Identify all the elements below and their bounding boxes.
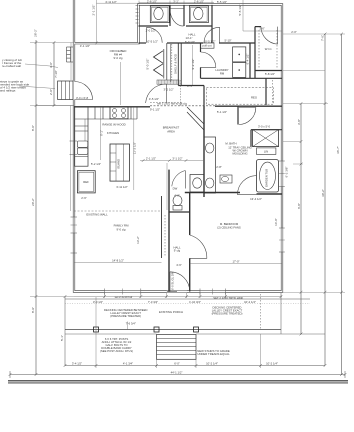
svg-text:10'-2 1/4": 10'-2 1/4" xyxy=(244,300,256,304)
office closet front x=163.8 xyxy=(163,49,165,79)
svg-text:17'-0": 17'-0" xyxy=(232,260,239,264)
header dashed over kitchen/breakfast opening xyxy=(150,105,215,107)
svg-text:5'-1 1/2": 5'-1 1/2" xyxy=(217,110,227,114)
svg-text:8'-0": 8'-0" xyxy=(31,125,35,131)
office dim x=192.3 xyxy=(191,45,193,85)
svg-text:3'-11 1/2": 3'-11 1/2" xyxy=(116,185,128,189)
bottom wall dim extensions xyxy=(104,293,106,298)
svg-text:9'-0 clg: 9'-0 clg xyxy=(114,56,123,60)
closet rod dashed x=272.5 xyxy=(272,80,274,103)
deck stairs xyxy=(157,335,197,360)
svg-text:3'-0": 3'-0" xyxy=(49,62,53,68)
left dimension line x=71 xyxy=(70,43,72,81)
office dim x=96.5 xyxy=(96,0,98,43)
deck post 3 xyxy=(194,327,199,332)
svg-text:RANGE W/ HOOD: RANGE W/ HOOD xyxy=(102,123,125,127)
linen closet dashes xyxy=(164,215,166,256)
svg-text:44'-1 1/2": 44'-1 1/2" xyxy=(171,371,183,375)
shower xyxy=(253,130,279,147)
svg-text:re-crafted wall: re-crafted wall xyxy=(2,64,21,68)
right dimension line x=341.5 xyxy=(341,34,343,375)
kitchen vertical dim xyxy=(100,107,102,160)
laundry counter xyxy=(201,43,215,48)
deck right edge x=281 xyxy=(280,293,282,334)
wall ledge y=8.3 between baths xyxy=(170,7,184,9)
kitchen island xyxy=(110,144,129,181)
dashed header y=102.6 xyxy=(150,102,183,104)
svg-text:10'-2 1/4": 10'-2 1/4" xyxy=(206,361,218,365)
closet wall x=266 xyxy=(265,78,267,105)
svg-text:3'-1 1/2": 3'-1 1/2" xyxy=(172,157,182,161)
kitchen sink xyxy=(77,141,87,147)
mbath wall upper x=204 xyxy=(203,86,205,107)
dimension slash ticks xyxy=(9,33,347,376)
svg-text:2'-4": 2'-4" xyxy=(187,84,193,88)
top bath sink right box xyxy=(189,6,208,23)
office bifold doors xyxy=(154,51,164,77)
mbath toilet xyxy=(220,175,232,183)
svg-text:9'-0 clg: 9'-0 clg xyxy=(117,228,126,232)
entry stairs left xyxy=(58,81,73,100)
window bottom wall mbr xyxy=(200,289,226,295)
toilet room wall x=184 xyxy=(183,5,185,26)
pantry door arc xyxy=(172,171,186,187)
top dim line y=3.2 left xyxy=(97,2,139,4)
window right wall tub xyxy=(279,161,285,187)
window left wall family xyxy=(71,217,78,233)
svg-text:6'-0": 6'-0" xyxy=(174,361,180,365)
svg-text:5'-8 1/2": 5'-8 1/2" xyxy=(265,72,275,76)
svg-text:5'-10": 5'-10" xyxy=(224,39,231,43)
shower left wall x=251 xyxy=(250,130,252,147)
svg-text:7'-6 3/4": 7'-6 3/4" xyxy=(126,321,136,325)
deck dim line y=365.5 xyxy=(65,365,325,367)
svg-text:4'-1 1/2": 4'-1 1/2" xyxy=(80,44,90,48)
door arc laundry xyxy=(201,52,216,67)
breakfast/mbath wall x=204 xyxy=(203,106,205,197)
top bath sink left box xyxy=(150,6,169,23)
family room interior dim line xyxy=(74,262,162,264)
mbath vanity xyxy=(204,137,216,193)
entry door arc xyxy=(75,82,93,100)
left dimension line x=54 xyxy=(53,43,55,106)
svg-text:2'-0": 2'-0" xyxy=(291,30,297,34)
dashed line x=180.6 hall xyxy=(180,80,182,106)
svg-text:(PRESSURE TREATED): (PRESSURE TREATED) xyxy=(212,312,243,316)
office vertical dim x=120.6 xyxy=(120,62,122,105)
washer dryer xyxy=(233,47,246,62)
svg-text:5'-5 1/2": 5'-5 1/2" xyxy=(217,0,227,4)
svg-text:4'-0": 4'-0" xyxy=(174,194,180,198)
kitchen sink window ticks xyxy=(70,141,78,155)
wic left wall x=255 xyxy=(254,27,256,79)
svg-text:3'-8": 3'-8" xyxy=(297,119,301,125)
svg-text:10'-5 1/2": 10'-5 1/2" xyxy=(204,40,216,44)
mbr top wall y=193 xyxy=(185,192,240,194)
note leader 2 xyxy=(19,86,55,89)
svg-text:10'-2 1/4": 10'-2 1/4" xyxy=(266,361,278,365)
post extension lines xyxy=(95,297,97,368)
svg-text:2'-8": 2'-8" xyxy=(216,165,222,169)
svg-text:14'-0": 14'-0" xyxy=(274,218,278,226)
deck post 1 xyxy=(94,327,99,332)
deck dashed column xyxy=(260,294,262,330)
svg-text:AREA: AREA xyxy=(167,130,175,134)
mbath hall wall x=238 xyxy=(237,106,239,125)
door arc wic xyxy=(261,27,278,44)
kitchen counter divisions xyxy=(75,118,89,120)
office closet shelf lines xyxy=(169,44,171,82)
door arc mbr entry xyxy=(190,235,207,258)
toilet room wall x=212 xyxy=(211,5,213,43)
attic access dashed rect xyxy=(206,88,273,105)
deck ledger line xyxy=(65,298,310,300)
range xyxy=(110,107,128,119)
breakfast corner cabinet xyxy=(187,112,204,130)
svg-text:(PRESSURE TREATED): (PRESSURE TREATED) xyxy=(110,314,141,318)
svg-text:and railings: and railings xyxy=(0,89,16,93)
breakfast dim y=160.5 xyxy=(140,160,204,162)
svg-text:6'-8": 6'-8" xyxy=(297,203,301,209)
svg-text:2'-1 1/2": 2'-1 1/2" xyxy=(92,5,96,16)
ladder ticks left of bath wall xyxy=(136,6,139,24)
interior wall y=107 kitchen top xyxy=(74,106,150,108)
svg-text:5'-5 1/2": 5'-5 1/2" xyxy=(238,5,242,16)
linen closet wall x=161.5 xyxy=(161,196,163,258)
svg-text:4'-5 1/2": 4'-5 1/2" xyxy=(149,97,159,101)
mbr interior dim line xyxy=(190,263,282,265)
garden tub xyxy=(257,160,279,192)
svg-text:SET 2 2x10 TRTD HDR: SET 2 2x10 TRTD HDR xyxy=(213,296,243,300)
deck left edge xyxy=(64,297,66,367)
svg-text:5'-2 1/4": 5'-2 1/4" xyxy=(91,162,101,166)
svg-text:2'-8 1/2": 2'-8 1/2" xyxy=(147,0,157,4)
svg-text:EXISTING PORCH: EXISTING PORCH xyxy=(159,310,183,314)
door arc hall left xyxy=(147,27,163,43)
powder toilet xyxy=(173,196,182,206)
kitchen top counter xyxy=(88,107,137,119)
svg-text:2'-1 1/2": 2'-1 1/2" xyxy=(146,157,156,161)
svg-text:4'-6": 4'-6" xyxy=(176,263,182,267)
svg-text:EXISTING WALL: EXISTING WALL xyxy=(86,213,108,217)
svg-text:6'-2 3/8": 6'-2 3/8" xyxy=(285,167,289,178)
right dim tick y=71 xyxy=(283,70,325,72)
right dim tick y=103.6 xyxy=(283,103,328,105)
ground double line xyxy=(8,380,348,382)
sliding glass door bottom wall xyxy=(167,290,187,293)
dim line y=31 top right xyxy=(243,30,282,32)
toilet room wall x=170 xyxy=(169,5,171,26)
breakfast vertical dim xyxy=(133,107,135,190)
hall wall x=169 xyxy=(168,170,170,292)
top dim line y=2.5 xyxy=(139,2,214,4)
refrigerator xyxy=(77,171,95,193)
mbath sink 1 xyxy=(206,143,214,153)
door arc mbr to mbath xyxy=(238,176,257,195)
hatched box hall xyxy=(157,80,179,84)
svg-text:28'-2": 28'-2" xyxy=(34,29,38,37)
svg-text:36'-7": 36'-7" xyxy=(336,146,340,154)
svg-text:30'-2": 30'-2" xyxy=(321,189,325,197)
laundry bottom wall y=78.3 xyxy=(201,77,283,79)
window right wall mbr xyxy=(279,228,285,252)
svg-text:5'-0 1/2": 5'-0 1/2" xyxy=(146,59,150,70)
svg-text:2'-0 1/2": 2'-0 1/2" xyxy=(146,29,156,33)
svg-text:9' clg: 9' clg xyxy=(174,249,181,253)
svg-text:8'-9": 8'-9" xyxy=(31,307,35,313)
svg-text:11'-2 1/2": 11'-2 1/2" xyxy=(133,142,137,154)
shower top wall y=129.7 xyxy=(251,129,282,131)
dim tick y=105 left xyxy=(30,105,74,107)
door arc office xyxy=(146,84,167,103)
dim tick y=42 left xyxy=(30,42,74,44)
svg-text:3'-0 1/2": 3'-0 1/2" xyxy=(93,300,103,304)
door arc back door xyxy=(170,272,190,292)
svg-text:2'-6": 2'-6" xyxy=(81,196,87,200)
svg-text:9'-2 1/2": 9'-2 1/2" xyxy=(191,59,195,70)
svg-text:7'-6": 7'-6" xyxy=(321,35,325,41)
svg-text:KITCHEN: KITCHEN xyxy=(107,131,119,135)
svg-text:GARDEN TUB: GARDEN TUB xyxy=(265,169,269,187)
svg-text:13'-2": 13'-2" xyxy=(136,236,140,244)
bottom wall dim line y=296.5 xyxy=(74,296,282,298)
svg-text:20'-2": 20'-2" xyxy=(31,198,35,206)
right dim tick y=34 xyxy=(283,33,345,35)
svg-text:13'-4 1/2": 13'-4 1/2" xyxy=(250,197,262,201)
left dimension line x=36 xyxy=(35,40,37,375)
existing wall dashed family xyxy=(74,210,162,212)
hall wall x=189.7 xyxy=(189,193,191,236)
svg-text:3'-1": 3'-1" xyxy=(173,0,179,4)
svg-text:6'-4 1/2": 6'-4 1/2" xyxy=(246,54,250,65)
right dim tick y=292 xyxy=(283,291,345,293)
exterior walls outline (double line) xyxy=(74,0,282,292)
svg-text:2'-8 1/2": 2'-8 1/2" xyxy=(194,0,204,4)
svg-text:9'-1 1/2": 9'-1 1/2" xyxy=(150,108,160,112)
svg-text:5'-1": 5'-1" xyxy=(60,335,64,341)
svg-text:7'-10": 7'-10" xyxy=(54,70,58,78)
svg-text:3'-2 1/2": 3'-2 1/2" xyxy=(163,88,173,92)
svg-text:MOULDING: MOULDING xyxy=(232,152,247,156)
stair hall wall y=85.5 xyxy=(178,85,204,87)
svg-text:RM: RM xyxy=(220,72,225,76)
door arc mbath entry xyxy=(239,108,256,125)
svg-text:2'-0": 2'-0" xyxy=(49,89,53,95)
wic hanging rod dashes xyxy=(258,30,260,68)
svg-text:LIN: LIN xyxy=(264,150,268,154)
laundry left wall x=200.5 xyxy=(200,43,202,52)
svg-text:3'-0 x 5'-0: 3'-0 x 5'-0 xyxy=(258,125,271,129)
svg-text:6'-0 1/2": 6'-0 1/2" xyxy=(185,40,195,44)
wic bottom wall y=70.5 xyxy=(255,70,282,72)
right dimension line x=325 xyxy=(324,34,326,366)
linen box xyxy=(257,148,276,155)
deck rail line xyxy=(65,329,281,331)
svg-text:set 3 2x10 hdr w/ att clg: set 3 2x10 hdr w/ att clg xyxy=(157,101,187,105)
svg-text:4'-1 3/4": 4'-1 3/4" xyxy=(123,361,133,365)
svg-text:4'-11 1/2": 4'-11 1/2" xyxy=(105,0,117,4)
svg-text:ISLAND: ISLAND xyxy=(117,159,121,169)
svg-text:3'-0 x 6'-8: 3'-0 x 6'-8 xyxy=(76,96,89,100)
note leader 1 xyxy=(25,64,58,68)
mbath sink 2 xyxy=(206,178,214,188)
tick left wall y=253 xyxy=(71,252,78,254)
svg-text:(2) CEILING FANS: (2) CEILING FANS xyxy=(217,226,241,230)
svg-text:7'-3 3/4": 7'-3 3/4" xyxy=(148,300,158,304)
hall top wall y=26 xyxy=(139,25,169,27)
svg-text:SHELF & ROD: SHELF & ROD xyxy=(174,53,178,74)
svg-text:6'-0 SL GL DR: 6'-0 SL GL DR xyxy=(170,272,174,290)
deck dotted row 1 xyxy=(65,303,310,305)
mbath sink 3 xyxy=(193,178,202,188)
door arc toilet left xyxy=(170,9,184,26)
breakfast dim x=167 xyxy=(166,163,168,210)
range burners xyxy=(113,109,117,113)
powder room wall y=212 xyxy=(169,211,190,213)
laundry right wall x=250 xyxy=(249,43,251,78)
deck front edge y=334 xyxy=(65,333,157,335)
kitchen counter along left wall xyxy=(75,107,89,166)
door arc hall right xyxy=(204,27,220,43)
hall bottom wall y=43 xyxy=(139,42,147,44)
pantry door leaf xyxy=(184,171,186,189)
svg-text:3'-4 1/2": 3'-4 1/2" xyxy=(72,361,82,365)
svg-text:REG: REG xyxy=(251,96,257,100)
wic top wall y=26.6 xyxy=(255,26,261,28)
svg-text:(SEE POST ANCH. DTLS): (SEE POST ANCH. DTLS) xyxy=(100,349,133,353)
svg-text:W.I.C.: W.I.C. xyxy=(265,47,273,51)
interior wall y=106 right part xyxy=(215,105,282,107)
svg-text:6'-1": 6'-1" xyxy=(99,130,103,136)
dim tick y=296 left xyxy=(30,296,74,298)
dim line y=105 left extension xyxy=(36,105,74,107)
svg-text:UNDER TREADS EQUAL: UNDER TREADS EQUAL xyxy=(197,352,230,356)
svg-text:1'-10 3/4": 1'-10 3/4" xyxy=(189,300,201,304)
svg-text:14'-8 1/2": 14'-8 1/2" xyxy=(112,259,124,263)
svg-text:REF: REF xyxy=(83,180,89,184)
svg-text:DW: DW xyxy=(173,187,178,191)
mbath vanity extension xyxy=(190,175,204,193)
window bottom wall family xyxy=(105,289,141,295)
svg-text:1'-6": 1'-6" xyxy=(259,27,265,31)
right small ticks xyxy=(283,142,303,164)
office closet front x=166.8 xyxy=(166,43,168,80)
right dimension line x=301 xyxy=(300,104,302,334)
stair wall x=179.5 xyxy=(177,43,179,86)
svg-text:10'-5 1/2": 10'-5 1/2" xyxy=(146,40,158,44)
dim line x=243 top right xyxy=(242,0,244,31)
svg-text:pull out: pull out xyxy=(202,44,211,48)
deck post 2 xyxy=(154,327,159,332)
bottom overall dim line y=374.5 xyxy=(10,374,345,376)
window left wall upper (ladder symbol) xyxy=(67,47,74,62)
svg-text:set 2 2x10 hdr: set 2 2x10 hdr xyxy=(115,295,133,299)
